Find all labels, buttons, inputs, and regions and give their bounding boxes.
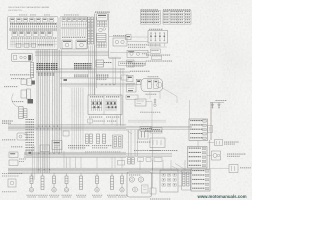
- left note horn: [2, 190, 17, 193]
- front left turn signal lamp: [27, 173, 37, 197]
- meter cluster top labels: [19, 14, 50, 17]
- fuse box label: [149, 28, 162, 31]
- meter gauge boxes: [12, 32, 52, 37]
- wire label column: [26, 119, 34, 151]
- kill switch to fuse wire: [127, 41, 148, 43]
- pulse generator box A: [127, 75, 134, 82]
- starter relay box: [127, 50, 148, 57]
- inter-band drop wires: [67, 152, 125, 169]
- watermark text: [197, 194, 247, 199]
- rear junction block: [160, 170, 178, 192]
- harness label text: [10, 74, 33, 79]
- bus faint upper line: [128, 112, 166, 122]
- condenser label: [137, 141, 150, 144]
- left lamp box: [8, 179, 16, 187]
- mid bus left note: [2, 120, 13, 123]
- combination switch box: [97, 14, 107, 20]
- speedometer dial: [129, 177, 134, 182]
- tail light unit: [212, 151, 221, 160]
- accessory connector: [88, 118, 117, 125]
- connector strip A: [88, 17, 90, 44]
- tail light label: [227, 154, 245, 157]
- position lamp: [62, 173, 72, 197]
- main switch enclosure: [12, 53, 33, 61]
- indicator lamp boxes: [10, 18, 54, 22]
- stack label text: [95, 12, 110, 13]
- rear harness connector table 2: [188, 147, 208, 169]
- lower bus band 2: [8, 168, 192, 173]
- headlight bulb: [49, 173, 59, 197]
- fuse text row 2: [146, 60, 172, 63]
- lower bus band 1: [24, 152, 172, 157]
- main switch label: [0, 0, 1, 1]
- pilot bus wires: [61, 27, 87, 28]
- alternator link box: [150, 128, 162, 134]
- brake lamp feed box: [26, 150, 32, 155]
- rear connector: [107, 173, 117, 197]
- clutch circuit note: [128, 63, 145, 66]
- title text line 2: [8, 9, 23, 12]
- tachometer dial: [138, 177, 143, 182]
- horn connector strip: [19, 107, 23, 119]
- mid text cluster: [68, 145, 111, 148]
- capsule attach box: [136, 79, 141, 84]
- sub harness wires: [72, 88, 83, 151]
- main fuse holder: [126, 35, 132, 40]
- relay label: [2, 138, 15, 141]
- horn loop wire: [12, 94, 19, 108]
- bus connector box mid: [140, 127, 152, 131]
- brake feed wires: [19, 146, 34, 180]
- kill switch label: [113, 34, 126, 37]
- kill switch box: [113, 38, 127, 46]
- mid small box B: [52, 141, 62, 150]
- capsule drop wires: [150, 88, 190, 119]
- wire color code table left: [141, 11, 161, 25]
- turn signal relay box: [17, 133, 27, 140]
- meter pin drop wires: [11, 22, 57, 31]
- capsule label below: [146, 93, 157, 96]
- mid bus wires: [8, 125, 192, 130]
- handlebar switch labels: [89, 116, 119, 119]
- small mark left mesh: [64, 79, 68, 81]
- stack cell rows: [97, 21, 107, 26]
- main switch contacts: [14, 55, 32, 60]
- wire color code table right: [163, 11, 191, 25]
- handlebar switch box: [88, 95, 122, 115]
- ignition coil box: [135, 99, 146, 106]
- fuse side box B: [152, 56, 162, 60]
- alternator drop wire: [152, 133, 154, 170]
- rear right turn signal lamp: [117, 173, 127, 197]
- left small box B: [9, 160, 18, 166]
- main harness bundle left: [37, 50, 50, 174]
- pilot cluster enclosure: [60, 17, 88, 50]
- tail light wire: [207, 155, 212, 157]
- bottom drop wires: [140, 160, 185, 170]
- bus step wires: [44, 115, 132, 169]
- brake switch label: [224, 142, 239, 145]
- connector strip B: [91, 17, 93, 44]
- meter cluster enclosure: [8, 17, 59, 50]
- pulse generator box B: [127, 84, 137, 92]
- pilot pin wires: [62, 22, 85, 28]
- front connector: [38, 173, 48, 197]
- fuse row label: [148, 44, 161, 47]
- bus small box: [63, 131, 69, 136]
- coil spring symbol: [154, 99, 156, 107]
- brake switch box: [215, 140, 223, 146]
- spark unit sub label: [148, 75, 159, 78]
- stack connector block: [97, 34, 107, 42]
- pilot text row: [62, 36, 85, 39]
- coil feed wire: [146, 102, 152, 127]
- bus dark dashes: [145, 131, 162, 132]
- mesh vertical wires: [89, 46, 124, 127]
- stack cell rows low: [97, 42, 107, 47]
- mid small box A: [40, 145, 50, 152]
- oil switch connector: [113, 135, 123, 148]
- mesh connector pair: [86, 134, 93, 144]
- rear harness connector table 1: [189, 119, 208, 141]
- spark unit capsule: [141, 79, 163, 92]
- regulator rectifier box: [150, 138, 165, 148]
- cluster inner marks: [129, 175, 170, 200]
- pilot lamp boxes: [62, 18, 87, 22]
- inline connectors: [134, 150, 162, 161]
- front brake label: [4, 85, 17, 88]
- fuse box: [148, 31, 168, 44]
- relay sub box: [127, 60, 135, 67]
- bottom right wire: [172, 164, 186, 187]
- horn and winker relay boxes: [62, 40, 87, 49]
- spark plug bar: [210, 101, 224, 103]
- bulb socket boxes: [16, 43, 53, 47]
- condenser: [139, 130, 149, 139]
- left note stop switch: [11, 145, 22, 148]
- front brake switch: [21, 79, 35, 86]
- wire color code table header: [141, 8, 191, 11]
- pulse sub box: [126, 95, 138, 99]
- harness trunk line: [95, 14, 97, 96]
- meter bus wires: [9, 28, 57, 30]
- left connector block: [24, 109, 28, 118]
- instrument cluster enclosure: [127, 172, 152, 197]
- mesh junction dots: [102, 84, 115, 85]
- odometer dial: [133, 185, 149, 193]
- bus junction dots: [37, 126, 61, 170]
- table 1 side box: [208, 126, 213, 133]
- cluster exit bus: [35, 51, 109, 55]
- title text line 1: [8, 6, 50, 9]
- bundle connector block: [37, 63, 58, 76]
- clutch switch label: [12, 100, 23, 103]
- relay strip box: [119, 62, 146, 66]
- clutch switch body: [21, 89, 33, 104]
- spark plugs right pair: [211, 102, 221, 108]
- meter text row 2: [11, 37, 56, 40]
- cluster feed wire: [150, 168, 156, 194]
- mesh text block: [74, 63, 92, 77]
- pilot drop wires: [63, 29, 86, 37]
- front right connector: [76, 173, 86, 197]
- table link wires: [197, 141, 199, 170]
- connector link wires: [87, 19, 95, 42]
- meter drop wires: [10, 39, 57, 48]
- mesh bus 2: [36, 68, 130, 72]
- spark unit label: [130, 70, 149, 73]
- rear harness connector table 3: [191, 169, 210, 191]
- left small box A: [9, 152, 18, 158]
- neutral switch connector: [97, 134, 106, 144]
- meter text row: [10, 23, 56, 24]
- alternator label: [150, 149, 177, 152]
- spark plug label right: [216, 99, 227, 102]
- stack to fuse wire: [109, 36, 148, 39]
- svg-text:1984 HONDA VF700C MAGNA WIRIN: 1984 HONDA VF700C MAGNA WIRING DIAGRAM: [8, 6, 50, 9]
- starter contact circles: [99, 28, 106, 32]
- plug lead wire: [210, 102, 211, 169]
- main harness bundle right: [53, 50, 62, 154]
- centre drop wires: [129, 130, 138, 156]
- stack connector block low: [96, 60, 111, 67]
- fuse side box A: [151, 49, 161, 53]
- fuse drop wires: [149, 43, 167, 47]
- relay note rows: [128, 44, 147, 47]
- left note turn signal: [2, 173, 22, 176]
- fuse text row 1: [146, 54, 170, 57]
- trunk junction block: [97, 75, 129, 80]
- handlebar feed bus: [60, 83, 135, 86]
- centre drop connector: [128, 158, 134, 165]
- svg-text:www.motomanuals.com: www.motomanuals.com: [197, 194, 247, 199]
- mesh bus 3: [60, 77, 122, 78]
- stack drop wire: [108, 14, 110, 59]
- brake switch wire: [208, 142, 215, 144]
- license light unit: [210, 165, 251, 173]
- bundle connector strip: [31, 63, 34, 78]
- left note winker: [2, 121, 13, 124]
- meter pin row: [10, 25, 57, 28]
- pulse generator connectors: [182, 170, 191, 190]
- rear left turn signal lamp: [92, 173, 102, 197]
- stack to relay wires: [109, 53, 150, 59]
- pilot cluster top labels: [64, 14, 79, 17]
